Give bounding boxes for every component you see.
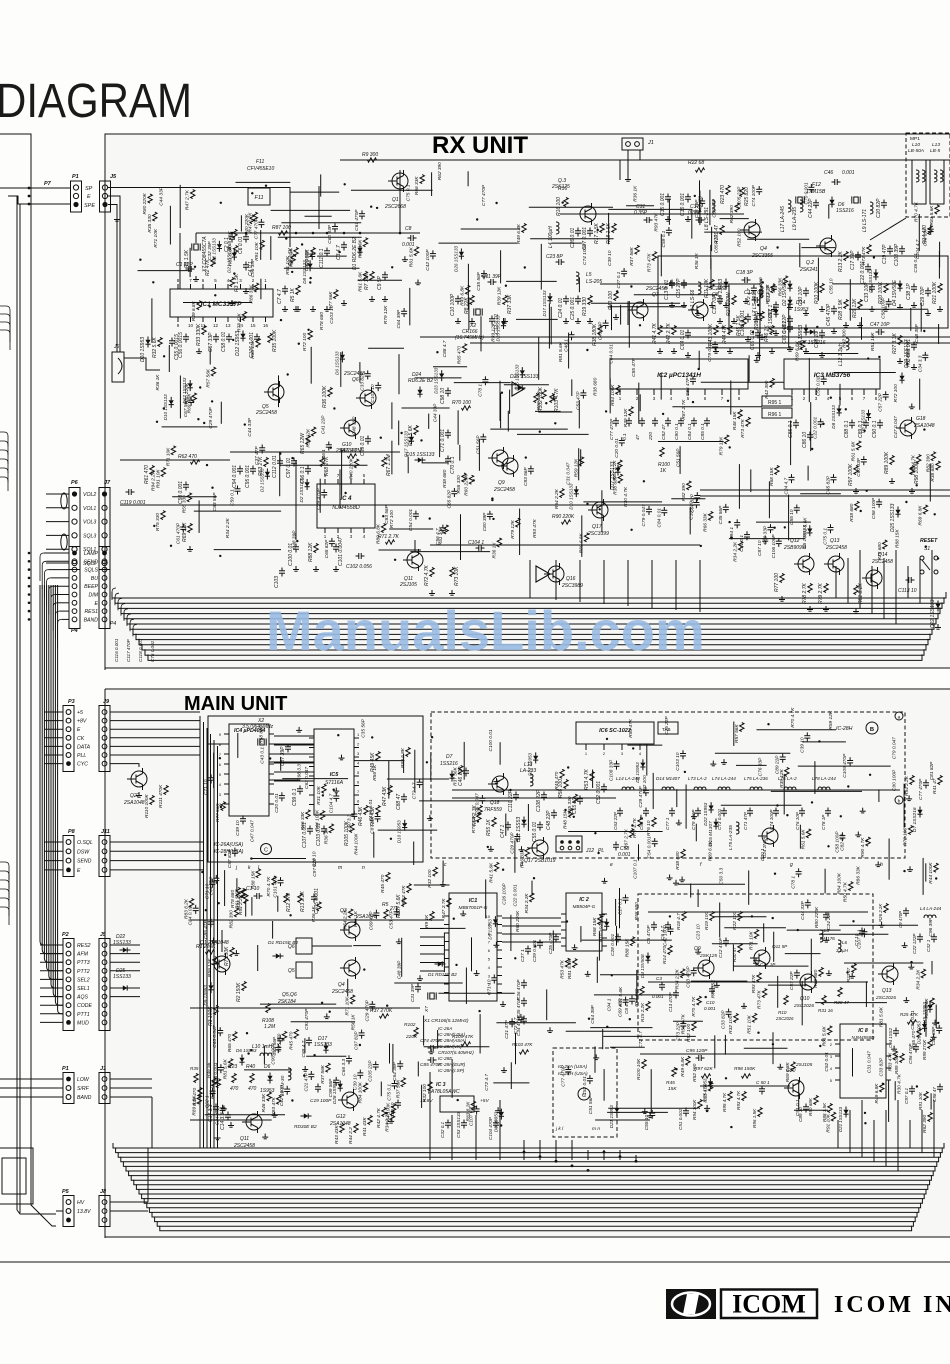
connector J1 antenna bbox=[622, 138, 643, 150]
resistor R100 1K bbox=[660, 448, 664, 457]
capacitor C15 27P bbox=[681, 282, 687, 284]
capacitor C35b 470P bbox=[521, 1000, 527, 1002]
capacitor C65 0.01 bbox=[755, 332, 761, 334]
resistor R14c 470 bbox=[668, 946, 672, 955]
resistor R87 100 bbox=[279, 231, 288, 235]
resistor R54b 2.3K bbox=[478, 806, 482, 815]
capacitor C38 1P bbox=[911, 286, 917, 288]
capacitor C88 0.1 bbox=[849, 422, 855, 424]
resistor R93 4.7K bbox=[742, 1092, 746, 1101]
svg-text:RES1: RES1 bbox=[84, 609, 98, 615]
capacitor C74b 470P bbox=[430, 1045, 432, 1051]
capacitor C29b 0.001 bbox=[537, 942, 543, 944]
resistor R27 100W bbox=[732, 296, 736, 305]
capacitor C58 0.01 bbox=[226, 336, 232, 338]
wires into P8 bbox=[44, 841, 63, 843]
capacitor C27 0.001 bbox=[587, 230, 593, 232]
diode D1b RD15E bbox=[276, 953, 280, 958]
resistor R11 10K bbox=[710, 280, 714, 289]
capacitor C12b 470P bbox=[723, 940, 729, 942]
capacitor C108b 22P bbox=[541, 794, 547, 796]
svg-text:SEND: SEND bbox=[77, 859, 92, 865]
coil L6b 3.3uH bbox=[838, 940, 841, 952]
capacitor C4 0.1 bbox=[243, 264, 249, 266]
diode D24 RD6.2E B2 bbox=[417, 390, 422, 394]
capacitor C93 0.001 bbox=[183, 484, 189, 486]
capacitor C109 0.001 bbox=[745, 316, 751, 318]
capacitor C36b 470P bbox=[521, 982, 527, 984]
svg-text:CK: CK bbox=[77, 736, 85, 742]
circled node b right bbox=[895, 796, 903, 804]
capacitor C29 70P bbox=[925, 290, 931, 292]
transistor Q3 2SA1048 main bbox=[344, 922, 360, 938]
capacitor C22b 022P bbox=[917, 936, 923, 938]
circled node a right bbox=[895, 712, 903, 720]
resistor R35b 470 bbox=[194, 1074, 198, 1083]
diode D6b 1S953 bbox=[267, 1076, 272, 1080]
svg-text:S/RF: S/RF bbox=[77, 1086, 90, 1092]
transistor Q18 IRF9S9 bbox=[492, 776, 508, 792]
coil L75b LA-235 bbox=[736, 822, 739, 834]
wire rail 160 bbox=[340, 159, 560, 161]
resistor R45b 15K bbox=[672, 1068, 676, 1077]
crystal X7b bbox=[430, 993, 434, 999]
capacitor C26b bbox=[553, 936, 559, 938]
transistor Q16 2SC3939 bbox=[548, 566, 564, 582]
svg-text:VOL2: VOL2 bbox=[83, 492, 96, 498]
capacitor C103 0.056 lower bbox=[279, 570, 285, 572]
resistor R26b 2.2K bbox=[884, 904, 888, 913]
capacitor C57 33P bbox=[213, 336, 219, 338]
filler parts RX mid-right bbox=[794, 507, 800, 509]
transistor Q10b 2SC2026 bbox=[800, 974, 816, 990]
svg-text:LAMP: LAMP bbox=[84, 551, 99, 557]
capacitor C112 0.01 bbox=[277, 460, 283, 462]
resistor R36 100K bbox=[328, 388, 332, 397]
svg-text:E: E bbox=[95, 601, 99, 607]
capacitor C34b 470P bbox=[521, 1018, 527, 1020]
capacitor C19 47P bbox=[887, 248, 893, 250]
svg-text:VOL3: VOL3 bbox=[83, 520, 96, 526]
capacitor column under IC2 bbox=[613, 420, 619, 422]
IC1 MB87001P-G bbox=[449, 893, 497, 1001]
svg-text:E: E bbox=[77, 868, 81, 874]
svg-text:LOW: LOW bbox=[77, 1077, 90, 1083]
left wire bundle verticals bbox=[40, 585, 63, 945]
svg-text:P6: P6 bbox=[71, 480, 79, 486]
transistor Q4 2SC3355 bbox=[744, 222, 760, 238]
transistor Q20 2SJ105 bbox=[788, 1080, 804, 1096]
capacitor C28b 0.001 bbox=[615, 936, 621, 938]
transistor Q18 2SA1048 bbox=[900, 420, 916, 436]
wires IC1 left bbox=[420, 919, 444, 921]
resistor R105 100K bbox=[350, 824, 354, 833]
wire horizontals MAIN grid bbox=[394, 982, 462, 984]
resistor R3b 100K bbox=[214, 1006, 218, 1015]
diode D5 1S953 bbox=[773, 310, 778, 314]
resistor R49 45K bbox=[376, 752, 380, 761]
resistor R15b 2.2K bbox=[646, 1002, 650, 1011]
connector P7 junction dots bbox=[28, 187, 31, 190]
resistor R10 100K bbox=[820, 284, 824, 293]
resistor R20 100K bbox=[884, 284, 888, 293]
resistor R39b 470 bbox=[198, 1088, 202, 1097]
resistor R79 2.7K bbox=[824, 584, 828, 593]
svg-text:DIM: DIM bbox=[88, 593, 98, 599]
capacitor C120 0.1 bbox=[754, 297, 756, 303]
resistor R5 1K bbox=[296, 286, 300, 295]
misc right column parts bbox=[844, 300, 848, 309]
capacitor C36 0.001 bbox=[685, 196, 691, 198]
diode D14 1S953 bbox=[787, 300, 792, 304]
resistor R71 2.7K bbox=[386, 540, 395, 544]
wire J1 down bbox=[627, 150, 629, 176]
svg-text:SPE: SPE bbox=[84, 203, 95, 209]
resistor R64 5.6K bbox=[414, 426, 418, 435]
capacitor C104 1 bbox=[478, 545, 480, 551]
diode D4b 1SV50E bbox=[645, 956, 650, 960]
capacitor C20 82P bbox=[881, 202, 887, 204]
svg-text:PTT1: PTT1 bbox=[77, 1012, 90, 1018]
filler parts MAIN lower-left bbox=[197, 1095, 201, 1104]
resistor R81 8.2K bbox=[854, 586, 858, 595]
resistor R89 100K bbox=[890, 456, 894, 465]
resistor R13b 2.2K bbox=[298, 894, 302, 903]
capacitor C95 0.001 bbox=[250, 468, 256, 470]
resistor R7 10K bbox=[370, 272, 374, 281]
capacitor C13 0.01 bbox=[669, 282, 675, 284]
svg-text:P7: P7 bbox=[44, 181, 52, 187]
resistor R43 100K bbox=[714, 326, 718, 335]
transistor Q12c 2SC2026 bbox=[754, 950, 770, 966]
resistor R5b 27K bbox=[384, 910, 388, 919]
svg-text:P2: P2 bbox=[62, 932, 69, 938]
capacitor C20b 10 bbox=[395, 1102, 401, 1104]
resistor R44b 43K bbox=[376, 806, 380, 815]
resistor R108 1.2M bbox=[266, 1004, 270, 1013]
resistor R67 1.2M bbox=[382, 458, 386, 467]
svg-text:AFM: AFM bbox=[76, 952, 89, 958]
transistor Q3 2SK125 bbox=[580, 206, 596, 222]
resistor R89b 100K bbox=[900, 1054, 904, 1063]
RX long rail y545 bbox=[430, 544, 700, 546]
diode D22 1SS133 rx bbox=[935, 604, 940, 608]
resistor R76 10 bbox=[652, 818, 656, 827]
capacitor C10 100P bbox=[455, 298, 461, 300]
RX bottom bus wires bbox=[112, 592, 946, 598]
capacitor C94c 0.22 bbox=[893, 1030, 899, 1032]
diode D15 M1307 bbox=[713, 822, 718, 826]
capacitor C32c bbox=[931, 936, 937, 938]
capacitor C24 0.01 bbox=[563, 298, 569, 300]
resistor R26 120 bbox=[760, 312, 764, 321]
ICOM logo wordmark box bbox=[721, 1290, 817, 1319]
resistor R100b 10K bbox=[642, 1060, 646, 1069]
capacitor C3 4.7 bbox=[341, 244, 347, 246]
capacitor C6 0.01 bbox=[243, 236, 249, 238]
IC8 NJM4558D bbox=[840, 1024, 886, 1098]
resistor R32 5.6K bbox=[158, 338, 162, 347]
resistor R23 470 bbox=[726, 186, 730, 195]
wire Q1 collector bbox=[399, 170, 401, 233]
svg-text:BEEP: BEEP bbox=[84, 584, 98, 590]
transistor Q4 2SC2458 main bbox=[344, 960, 360, 976]
diode D21b bbox=[843, 1110, 848, 1114]
capacitor C107 0.001 bbox=[307, 828, 313, 830]
resistor R41 4.7K bbox=[658, 326, 662, 335]
coil L4b LA-244 bbox=[924, 915, 936, 918]
wire TX rails bbox=[648, 911, 868, 913]
capacitor C52 0.001 bbox=[601, 786, 607, 788]
capacitor C22 0.001 bbox=[865, 266, 871, 268]
capacitor C33 10P bbox=[869, 286, 875, 288]
twisted pair symbols P6 bbox=[61, 493, 67, 509]
svg-text:SEL2: SEL2 bbox=[77, 977, 90, 983]
capacitor C50b 1 bbox=[759, 1088, 765, 1090]
capacitor C89 0.1 bbox=[863, 422, 869, 424]
svg-text:J1: J1 bbox=[100, 1066, 106, 1072]
IC3 MB3756 bbox=[784, 359, 880, 389]
svg-text:DSW: DSW bbox=[77, 849, 90, 855]
svg-text:P5: P5 bbox=[62, 1189, 70, 1195]
wires J5 into RX unit bbox=[108, 196, 120, 226]
capacitor C14b 3.3 bbox=[225, 1114, 231, 1116]
junction dots MAIN scatter bbox=[321, 1002, 323, 1004]
RX bus risers bbox=[529, 560, 531, 598]
resistor R14 470 bbox=[928, 226, 932, 235]
PLL dashed module box bbox=[431, 712, 905, 858]
svg-text:SP: SP bbox=[85, 186, 93, 192]
connector J12 bbox=[556, 836, 582, 852]
ground at J5 bbox=[116, 216, 118, 220]
capacitor C89b 10 bbox=[803, 1106, 809, 1108]
resistor R77b 4.7K bbox=[638, 818, 642, 827]
capacitor C65b 10 bbox=[577, 798, 583, 800]
resistor R77 100 bbox=[780, 574, 784, 583]
resistor R56 100 bbox=[564, 780, 568, 789]
capacitor C46b 10P bbox=[463, 770, 469, 772]
transistor Q12b 2SA1048 bbox=[342, 1092, 358, 1108]
page separator line bbox=[0, 1261, 950, 1263]
capacitor C6b 4.7 bbox=[665, 924, 671, 926]
capacitor C55b 0.01 bbox=[537, 824, 543, 826]
filter F11 box bbox=[248, 188, 270, 205]
capacitor C97b 0.1 bbox=[909, 1088, 915, 1090]
transistor Q14 2SC2458 rx bbox=[866, 570, 882, 586]
svg-text:SQL3: SQL3 bbox=[83, 533, 96, 539]
filler parts MAIN pass2 bbox=[495, 942, 497, 946]
capacitor C31b 39P bbox=[415, 986, 421, 988]
capacitor C1 82P bbox=[188, 266, 190, 272]
transistor Q12 2SB909M bbox=[798, 556, 814, 572]
inductor L9 LS-171 bbox=[870, 202, 873, 214]
svg-text:SEND: SEND bbox=[84, 559, 99, 565]
coil L10 1mH bbox=[260, 1053, 272, 1056]
inner front-end box bbox=[658, 256, 948, 328]
resistor R30b 47 bbox=[738, 944, 742, 953]
transistor Q11 2SJ105 bbox=[407, 552, 423, 568]
coil risers and caps row bbox=[617, 810, 623, 812]
connector J5 on MAIN edge (lower) bbox=[99, 939, 110, 1031]
resistor R96b 150K bbox=[758, 1108, 762, 1117]
resistor R41b 43K bbox=[368, 1116, 372, 1125]
wire SP to P1 bbox=[0, 187, 70, 189]
top-right dashed module MP1 bbox=[906, 133, 950, 217]
transistor Q1 2SC2668 bbox=[392, 173, 408, 189]
capacitor C64 0.01 bbox=[685, 332, 691, 334]
capacitor C103b 0.01 bbox=[321, 828, 327, 830]
resistor R10b bbox=[784, 996, 788, 1005]
transistor Q8 af bbox=[492, 450, 508, 466]
resistor R16 100 bbox=[564, 198, 568, 207]
resistor R42b 4.7K bbox=[382, 1108, 386, 1117]
transistor Q17 2SC3399 bbox=[592, 502, 608, 518]
capacitor C23 8P bbox=[558, 259, 560, 265]
capacitor C35 0.001 bbox=[665, 196, 671, 198]
wire P3 CYC to Q22 bbox=[110, 764, 139, 767]
capacitor C1b 10 bbox=[256, 893, 258, 899]
capacitor C7b bbox=[859, 930, 865, 932]
capacitor C110 22P bbox=[513, 794, 519, 796]
diode D12 1S953 bbox=[240, 334, 245, 338]
svg-text:P1: P1 bbox=[72, 174, 79, 180]
diode D6 1SS216 bbox=[829, 200, 834, 204]
resistor R23c 47 bbox=[852, 964, 856, 973]
capacitor C87 39P bbox=[285, 746, 291, 748]
transistor Q9 2SC2458 af bbox=[502, 458, 518, 474]
resistor R37b 270K bbox=[380, 1014, 389, 1018]
wires Q7 Q8 bbox=[600, 283, 760, 285]
coil L13 LA-233 bbox=[530, 774, 533, 786]
RX unit outline bbox=[105, 134, 950, 670]
right edge components D7/C46 bbox=[910, 776, 914, 785]
capacitor C17c 1 bbox=[753, 960, 759, 962]
svg-text:O.SQL: O.SQL bbox=[77, 840, 93, 846]
diode D20 1SS133 bbox=[899, 376, 904, 380]
capacitor C51b 0.001 bbox=[683, 1110, 689, 1112]
resistor R46c 56 bbox=[212, 1078, 216, 1087]
left edge wire curls mid bbox=[0, 432, 8, 446]
capacitor C26 0.01 bbox=[575, 230, 581, 232]
capacitor C13b 0.001 bbox=[673, 992, 679, 994]
left edge wire curls lower bbox=[0, 862, 9, 880]
resistor R102b 220K bbox=[414, 1028, 418, 1037]
resistor R18 1.5K bbox=[612, 224, 616, 233]
svg-text:DIAGRAM: DIAGRAM bbox=[0, 75, 192, 128]
capacitor C66 0.001 bbox=[787, 326, 793, 328]
junction dots on chassis rail bbox=[28, 552, 31, 555]
capacitor C19b 100P bbox=[315, 1086, 321, 1088]
transistor Q13b 2SC2026 bbox=[882, 966, 898, 982]
resistor R98 100K bbox=[910, 466, 914, 475]
opamp comparator triangle bbox=[536, 566, 550, 582]
svg-text:SEL1: SEL1 bbox=[77, 986, 90, 992]
transistor Q6 2SC2458 bbox=[360, 390, 376, 406]
capacitor C5b 470P bbox=[651, 924, 657, 926]
capacitor C100 0.01 bbox=[293, 546, 299, 548]
stubs J5 rows to trunk bbox=[110, 944, 140, 946]
coil pair in MP1 bbox=[912, 160, 926, 204]
filler parts MAIN bbox=[477, 813, 481, 822]
wire verticals MAIN grid bbox=[888, 1081, 890, 1122]
resistor R18b 4.7 bbox=[682, 912, 686, 921]
resistor R52? KPS bbox=[590, 772, 594, 781]
resistor R19b 100 bbox=[710, 912, 714, 921]
resistor R4 1.5K bbox=[294, 248, 298, 257]
resistor R17 1.5K bbox=[600, 224, 604, 233]
capacitor C99 0.01 bbox=[365, 438, 371, 440]
capacitor C25 0.001 bbox=[575, 298, 581, 300]
svg-text:P3: P3 bbox=[68, 699, 75, 705]
resistor R19 330 bbox=[588, 296, 592, 305]
stubs J9 rows to trunk bbox=[110, 711, 200, 713]
svg-text:+8V: +8V bbox=[77, 719, 87, 725]
wires logic box bbox=[208, 743, 229, 745]
resistor R55 1K bbox=[492, 818, 496, 827]
wire bundle from P4 to left rail bbox=[44, 552, 69, 554]
capacitor C68 10 bbox=[819, 332, 825, 334]
resistor R40b 470 bbox=[250, 1074, 254, 1083]
resistor R91b 10K bbox=[924, 1092, 928, 1101]
svg-text:SQLS: SQLS bbox=[84, 568, 98, 574]
svg-text:RES2: RES2 bbox=[77, 943, 91, 949]
capacitor C9 5P bbox=[382, 274, 388, 276]
resistor R13 2.2K bbox=[844, 252, 848, 261]
svg-text:DATA: DATA bbox=[77, 744, 91, 750]
transistor Q24 2N3904 bbox=[762, 828, 778, 844]
svg-text:P8: P8 bbox=[68, 829, 76, 835]
capacitor C44 22P bbox=[813, 202, 819, 204]
capacitor C85b 470P bbox=[430, 1057, 432, 1063]
capacitor C33b bbox=[461, 1122, 467, 1124]
resistor R69 12K bbox=[188, 524, 192, 533]
capacitor C39 70P bbox=[717, 298, 723, 300]
resistor R61 470 bbox=[150, 466, 154, 475]
capacitor C85 0.1b bbox=[793, 422, 799, 424]
capacitor C9b 470P bbox=[903, 910, 909, 912]
MAIN bottom bus wires bbox=[113, 1143, 944, 1148]
svg-text:J5: J5 bbox=[100, 932, 106, 938]
opamp G10 triangle bbox=[512, 382, 524, 396]
resistor R66 1.2M bbox=[348, 454, 357, 458]
svg-text:P1: P1 bbox=[62, 1066, 69, 1072]
inductor L7 LS-291 bbox=[760, 286, 763, 298]
resistor R46 1K bbox=[770, 326, 774, 335]
chassis line top-left corner bbox=[0, 134, 48, 1222]
chassis bottom-left module box bbox=[0, 1148, 33, 1204]
RX bus left bends to J7 bbox=[112, 588, 116, 600]
diode D2 1SV50E bbox=[787, 284, 792, 288]
capacitor C17b 3.3 bbox=[213, 1106, 219, 1108]
diode D10 1S953 bbox=[145, 340, 150, 344]
resistor R70 100 bbox=[462, 406, 471, 410]
riser from Q across bus bbox=[429, 1072, 431, 1160]
svg-text:AQS: AQS bbox=[76, 995, 88, 1001]
resistor R8 22K bbox=[470, 296, 474, 305]
svg-text:E: E bbox=[87, 194, 91, 200]
svg-text:ICOM IN: ICOM IN bbox=[834, 1292, 950, 1318]
capacitor C27b 1 bbox=[525, 948, 531, 950]
capacitor C17 39P bbox=[855, 254, 861, 256]
svg-text:+5: +5 bbox=[77, 710, 83, 716]
resistor R9 300 bbox=[368, 158, 377, 162]
resistor R107 5.6K bbox=[402, 898, 406, 907]
IC5 S7116A bbox=[314, 729, 354, 815]
stubs J11 rows to trunk bbox=[110, 841, 204, 843]
resistor R63 27K bbox=[264, 458, 268, 467]
svg-text:BAND: BAND bbox=[84, 617, 99, 623]
inductor L5 LS-205 bbox=[576, 272, 579, 284]
